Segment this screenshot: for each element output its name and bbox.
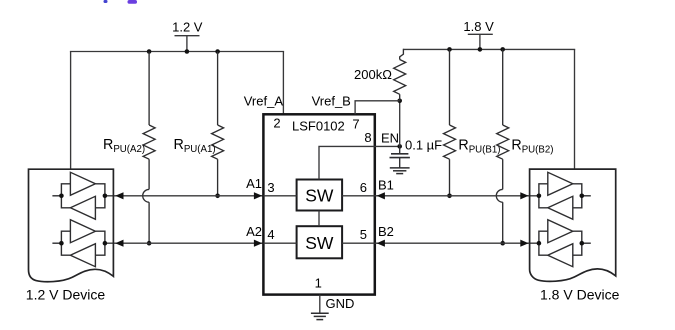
wire: RPU(B2) down to B2 net: [502, 202, 504, 243]
device L pair 1 stub: [52, 195, 61, 197]
arrowhead A1 into IC pin 3: [254, 192, 262, 199]
resistor RPU(B2): [497, 49, 509, 189]
junction dot Vref_B node: [397, 99, 402, 104]
wire: 1.2V tap: [186, 36, 188, 52]
device R pair 2 left bracket: [539, 231, 548, 255]
device R pair 2 stub: [582, 242, 591, 244]
arrowhead A2 into IC pin 4: [254, 240, 262, 247]
svg-text:200kΩ: 200kΩ: [354, 67, 392, 82]
svg-text:SW: SW: [305, 233, 334, 253]
supply bar 1.8 V: [468, 33, 493, 35]
ground symbol (pin 1): [311, 313, 329, 319]
device L pair 1 dot left: [59, 194, 64, 199]
svg-text:A1: A1: [246, 176, 262, 191]
device R pair 1 stub: [582, 195, 591, 197]
device R buffer pair 2: bottom triangle: [548, 244, 573, 267]
svg-text:1: 1: [315, 275, 322, 290]
arrowhead A2 into device: [115, 240, 123, 247]
resistor RPU(A2): [143, 52, 155, 190]
junction dot on 1.2V bus at RPU(A2): [147, 49, 152, 54]
wire: 1.8V bus: [403, 48, 575, 50]
pin 3 internal stub: [263, 195, 296, 197]
wire: 1.8V tap: [479, 34, 481, 49]
device L pair 2 stub: [52, 242, 61, 244]
wire B1 net: [375, 195, 539, 197]
wire A2 net: [105, 242, 264, 244]
svg-text:Vref_B: Vref_B: [312, 93, 351, 108]
svg-text:1.2 V Device: 1.2 V Device: [26, 286, 106, 302]
svg-text:SW: SW: [305, 185, 334, 205]
pin 5 internal stub: [342, 242, 375, 244]
svg-text:B2: B2: [378, 224, 394, 239]
supply label 1.2 V: [172, 19, 203, 34]
1.2 V device box (torn sheet): [29, 169, 114, 282]
supply bar 1.2 V: [175, 35, 200, 37]
device L pair 1 dot right: [103, 194, 108, 199]
svg-text:4: 4: [267, 227, 274, 242]
svg-text:GND: GND: [326, 296, 355, 311]
wire B2 net: [375, 242, 539, 244]
arrowhead B2 into IC pin 5: [377, 240, 385, 247]
wire A1 net: [105, 195, 264, 197]
device L buffer pair 1: bottom triangle: [70, 196, 95, 219]
svg-text:0.1 µF: 0.1 µF: [405, 138, 442, 153]
junction dot on 1.8V bus at RPU(B2): [500, 47, 505, 52]
internal EN wire: [319, 146, 375, 179]
wire hop: RPU(A2) over A1 wire: [143, 189, 149, 202]
supply label 1.8 V: [463, 19, 494, 34]
arrowhead A1 into device: [115, 192, 123, 199]
junction dot RPU(A2) on A2 wire: [147, 241, 152, 246]
svg-text:1.2 V: 1.2 V: [172, 19, 203, 34]
svg-text:7: 7: [352, 116, 359, 131]
wire hop: RPU(B2) over B1 wire: [496, 189, 502, 202]
junction dot RPU(B1) on B1 wire: [447, 194, 452, 199]
GND stub from pin 1: [319, 295, 321, 314]
arrowhead B1 into IC pin 6: [377, 192, 385, 199]
svg-text:8: 8: [364, 130, 371, 145]
blue text descender mark 2 (cropped caption): [128, 0, 138, 4]
wire: 1.2V bus left drop to device: [70, 52, 72, 170]
wire: RPU(A2) down to A2 net: [148, 202, 150, 243]
pin 6 internal stub: [342, 195, 375, 197]
device R pair 1 dot right: [580, 194, 585, 199]
EN stub and net: [375, 145, 400, 147]
1.8 V device box (torn sheet): [530, 169, 616, 281]
device L pair 2 right bracket: [95, 231, 105, 255]
device R buffer pair 1: bottom triangle: [548, 196, 573, 219]
resistor RPU(B1): [444, 49, 456, 195]
device R pair 1 right bracket: [573, 184, 582, 208]
junction dot on 1.2V bus at tap: [185, 49, 190, 54]
svg-text:Vref_A: Vref_A: [244, 93, 284, 108]
wire EN node up to Vref_B node: [399, 101, 401, 147]
wire: bus drop to pin 2: [282, 52, 284, 115]
svg-text:EN: EN: [381, 131, 399, 146]
ground symbol (capacitor): [390, 168, 410, 174]
switch SW2 box: [297, 226, 343, 258]
svg-text:6: 6: [360, 180, 367, 195]
svg-text:1.8 V: 1.8 V: [463, 19, 494, 34]
svg-text:3: 3: [267, 180, 274, 195]
device R buffer pair 1: top triangle: [548, 172, 573, 195]
device R pair 2 dot left: [537, 241, 542, 246]
arrowhead B2 into device: [520, 240, 528, 247]
device R pair 2 dot right: [580, 241, 585, 246]
device R pair 1 left bracket: [539, 184, 548, 208]
IC LSF0102 body: [263, 114, 374, 294]
arrowhead B1 into device: [520, 192, 528, 199]
svg-text:5: 5: [360, 227, 367, 242]
junction dot EN node: [397, 144, 402, 149]
device L pair 1 left bracket: [61, 184, 70, 208]
junction dot RPU(A1) on A1 wire: [215, 194, 220, 199]
device L buffer pair 2: bottom triangle: [70, 244, 95, 267]
device L pair 1 right bracket: [95, 184, 105, 208]
svg-text:A2: A2: [246, 224, 262, 239]
svg-text:LSF0102: LSF0102: [292, 118, 345, 133]
pin 4 internal stub: [263, 242, 296, 244]
resistor RPU(A1): [212, 52, 224, 196]
junction dot RPU(B2) on B2 wire: [500, 241, 505, 246]
wire: 1.8V bus right drop to device: [574, 49, 576, 169]
device R pair 1 dot left: [537, 194, 542, 199]
svg-text:1.8 V Device: 1.8 V Device: [540, 286, 620, 302]
device L pair 2 left bracket: [61, 231, 70, 255]
capacitor 0.1uF: [390, 146, 410, 168]
device L pair 2 dot right: [103, 241, 108, 246]
junction dot on 1.8V bus at tap: [478, 47, 483, 52]
svg-text:B1: B1: [378, 178, 394, 193]
blue text descender mark 1 (cropped caption): [104, 0, 108, 3]
device L buffer pair 1: top triangle: [70, 172, 95, 195]
junction dot on 1.2V bus at RPU(A1): [215, 49, 220, 54]
device R pair 2 right bracket: [573, 231, 582, 255]
svg-text:2: 2: [273, 115, 280, 130]
wire Vref_B node to pin 7: [355, 101, 400, 115]
device R buffer pair 2: top triangle: [548, 220, 573, 243]
switch SW1 box: [297, 180, 343, 211]
resistor 200k: [394, 49, 406, 101]
device L buffer pair 2: top triangle: [70, 220, 95, 243]
wire: 1.2V bus: [70, 51, 284, 53]
internal SW1-SW2 connector: [318, 211, 320, 227]
device L pair 2 dot left: [59, 241, 64, 246]
junction dot on 1.8V bus at RPU(B1): [447, 47, 452, 52]
